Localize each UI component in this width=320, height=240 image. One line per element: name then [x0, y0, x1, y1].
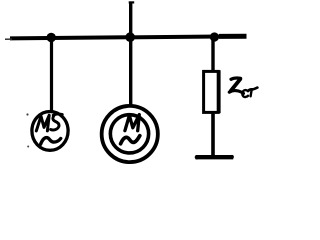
wire : from impedance Zct down to terminal bar — [211, 113, 215, 157]
impedance Zct : thicker right side — [217, 70, 221, 113]
motor M : inner circle — [110, 115, 148, 153]
wire : thin lead at left end of bus — [5, 38, 12, 40]
impedance Zct : subscript ct letter t — [249, 88, 258, 97]
machine MS : AC tilde — [41, 138, 61, 145]
speck left of MS circle — [26, 113, 28, 115]
motor M : outer circle — [102, 106, 158, 162]
wire : vertical feeder from top edge through bus to motor M — [129, 2, 132, 106]
wire : drop to machine MS — [50, 37, 53, 112]
node : junction of bus and MS drop — [47, 33, 56, 42]
motor M : letter M of label — [125, 115, 139, 131]
ground : bottom terminal bar — [196, 155, 234, 159]
machine MS : circle body — [32, 111, 68, 150]
impedance Zct : subscript ct letter c — [242, 90, 248, 97]
wire : horizontal supply bus — [10, 36, 247, 38]
wire : drop to impedance Zct — [211, 37, 214, 71]
machine MS : letter S of label — [51, 114, 63, 130]
wire : small tick at top of feeder — [129, 1, 135, 3]
speck lower-left of MS circle — [27, 146, 29, 148]
node : junction of bus and Zct drop — [210, 32, 219, 41]
machine MS : letter M of label — [36, 115, 49, 131]
wire : thicker right end of bus — [219, 34, 247, 39]
ground : left end blob of terminal bar — [195, 155, 199, 159]
motor M : AC tilde — [121, 136, 140, 144]
impedance Zct : letter Z of label — [229, 78, 243, 93]
node : junction of bus and motor feeder — [125, 32, 135, 42]
ground : right end blob of terminal bar — [230, 155, 234, 159]
impedance Zct : rectangle body — [204, 71, 219, 112]
